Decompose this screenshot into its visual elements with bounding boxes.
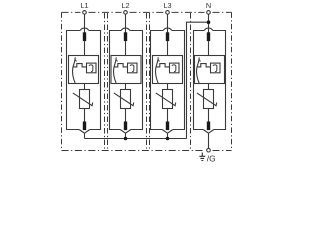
- integral glyph in U3: [172, 65, 176, 72]
- wire L3 terminal to disconnector: [167, 14, 169, 33]
- spark gap U1 electrode curve: [73, 57, 76, 83]
- thermal disconnector F1a: [83, 32, 86, 41]
- wire disconnector to spark gap: [208, 41, 210, 55]
- enclosure border left: [61, 12, 63, 150]
- module 4 housing bottom vee: [203, 130, 214, 134]
- enclosure border bottom: [62, 150, 232, 152]
- wire L1 terminal to disconnector: [84, 14, 86, 33]
- module 4 housing frame: [194, 31, 226, 130]
- terminal node L2: [124, 11, 128, 15]
- spark gap U1 trigger tick: [75, 59, 77, 61]
- varistor RV2 diagonal: [114, 93, 134, 106]
- terminal node N: [207, 11, 211, 15]
- spark gap unit box U1: [69, 56, 99, 84]
- thermal disconnector F4a: [207, 32, 210, 41]
- wire module 2 bottom stub: [125, 133, 127, 138]
- spark gap unit box U3: [153, 56, 183, 84]
- varistor RV3 body: [163, 90, 173, 109]
- terminal node L3: [166, 11, 170, 15]
- wire PE collecting bus: [85, 138, 187, 140]
- quenching element box in U4: [211, 63, 221, 73]
- wire varistor to lower disconnector: [167, 109, 169, 122]
- svg-text:/G: /G: [207, 154, 216, 164]
- module 1 housing bottom vee: [79, 130, 90, 134]
- svg-text:L1: L1: [80, 1, 88, 10]
- varistor RV4 diagonal: [197, 93, 217, 106]
- junction dot bus at L2 module: [124, 137, 128, 141]
- varistor RV1 body: [80, 90, 90, 109]
- wire L2 terminal to disconnector: [125, 14, 127, 33]
- spark gap U3 trigger tick: [158, 59, 160, 61]
- spark gap U3 electrode step: [156, 64, 170, 67]
- spark gap unit box U4: [195, 56, 225, 84]
- quenching element box in U2: [128, 63, 138, 73]
- module separator lines: [105, 13, 191, 150]
- wire module 4 bottom stub: [208, 133, 210, 148]
- ground terminal node: [207, 148, 211, 152]
- spark gap U2 electrode step: [114, 64, 128, 67]
- quenching element box in U1: [87, 63, 97, 73]
- wire N terminal to disconnector: [208, 14, 210, 33]
- junction dot on N conductor: [207, 20, 211, 24]
- wire disconnector to spark gap: [167, 41, 169, 55]
- svg-text:N: N: [206, 1, 211, 10]
- module 1 housing top arc: [80, 28, 89, 30]
- spark gap U4 electrode step: [197, 64, 211, 67]
- varistor RV4 body: [204, 90, 214, 109]
- integral glyph in U1: [89, 65, 93, 72]
- thermal disconnector F2a: [124, 32, 127, 41]
- wire spark gap to varistor: [167, 84, 169, 90]
- module 3 housing top arc: [163, 28, 172, 30]
- module 2 housing bottom vee: [120, 130, 131, 134]
- module 2 housing frame: [110, 31, 143, 130]
- ground symbol: [199, 153, 205, 161]
- spark gap U2 trigger tick: [116, 59, 118, 61]
- module 1 housing frame: [67, 31, 101, 130]
- enclosure border top: [62, 11, 232, 13]
- integral glyph in U4: [213, 65, 217, 72]
- spark gap U3 electrode curve: [156, 57, 159, 83]
- wire varistor to lower disconnector: [84, 109, 86, 122]
- thermal disconnector F3a: [166, 32, 169, 41]
- module 3 housing bottom vee: [162, 130, 173, 134]
- wire spark gap to varistor: [208, 84, 210, 90]
- svg-text:L3: L3: [163, 1, 171, 10]
- wire spark gap to varistor: [84, 84, 86, 90]
- quenching element box in U3: [170, 63, 180, 73]
- thermal disconnector F3b: [166, 122, 169, 131]
- spark gap U4 electrode curve: [197, 57, 200, 83]
- spark gap U1 electrode step: [73, 64, 87, 67]
- spark gap unit box U2: [111, 56, 141, 84]
- wire module 1 bottom stub: [84, 133, 86, 138]
- module 4 housing top arc: [204, 28, 213, 30]
- wire spark gap to varistor: [125, 84, 127, 90]
- wire varistor to lower disconnector: [208, 109, 210, 122]
- wire varistor to lower disconnector: [125, 109, 127, 122]
- junction dot bus at L3 module: [166, 137, 170, 141]
- varistor RV1 diagonal: [73, 93, 93, 106]
- module 2 housing top arc: [121, 28, 130, 30]
- varistor RV3 diagonal: [156, 93, 176, 106]
- wire bus riser to N node: [187, 22, 209, 138]
- terminal node L1: [83, 11, 87, 15]
- thermal disconnector F2b: [124, 122, 127, 131]
- wire module 3 bottom stub: [167, 133, 169, 138]
- thermal disconnector F4b: [207, 122, 210, 131]
- spark gap U2 electrode curve: [114, 57, 117, 83]
- wire disconnector to spark gap: [84, 41, 86, 55]
- spark gap U4 trigger tick: [199, 59, 201, 61]
- module 3 housing frame: [151, 31, 185, 130]
- wire disconnector to spark gap: [125, 41, 127, 55]
- svg-text:L2: L2: [121, 1, 129, 10]
- enclosure border right: [231, 12, 233, 150]
- integral glyph in U2: [130, 65, 134, 72]
- thermal disconnector F1b: [83, 122, 86, 131]
- varistor RV2 body: [121, 90, 131, 109]
